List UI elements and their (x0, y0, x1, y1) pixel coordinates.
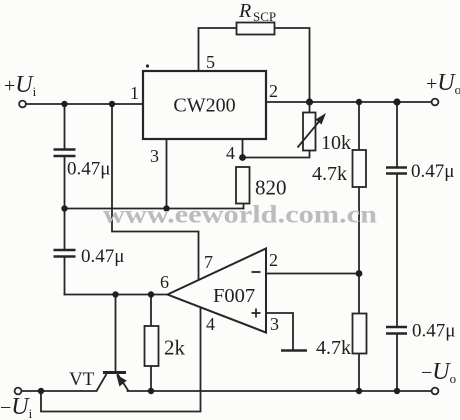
wire: cap C1 top lead (64, 104, 66, 149)
svg-text:4.7k: 4.7k (316, 337, 351, 359)
potentiometer 10k arrow (298, 118, 323, 148)
wire: 4.7k R2 bottom lead (358, 354, 360, 392)
wire: R_SCP left vertical (pin 5) (199, 28, 237, 71)
svg-text:7: 7 (204, 252, 213, 272)
svg-text:−Ui: −Ui (0, 394, 33, 420)
base bar (103, 371, 126, 374)
node: pin6 / 2k (148, 291, 154, 297)
node: output rail / pot (306, 98, 313, 105)
wire: cap C1 bottom lead (64, 157, 66, 209)
wire: pin 6 rail to op-amp apex (65, 294, 168, 296)
wire: mid rail (cap1 bottom / pin3 / 820 bottom) (65, 208, 244, 210)
node: bottom rail / cap (394, 388, 400, 394)
svg-text:4: 4 (206, 314, 215, 334)
transistor emitter arrowhead (116, 375, 127, 387)
svg-text:4: 4 (226, 143, 235, 163)
wire: F007 pin2 to 4.7k junction (266, 273, 359, 275)
wire: bottom output rail to -Uo (128, 390, 432, 392)
node: mid rail / C1-C2 (61, 205, 67, 211)
artifact dot above box corner (146, 64, 149, 67)
wire: CW200 pin 3 down to mid rail (166, 139, 168, 209)
wire: F007 pin3 to ground (266, 313, 293, 350)
svg-text:0.47μ: 0.47μ (67, 159, 110, 180)
svg-text:R: R (238, 0, 251, 22)
wire: 2k bottom lead (150, 366, 152, 391)
svg-text:5: 5 (206, 52, 215, 72)
resistor 820 (236, 167, 250, 204)
svg-text:VT: VT (69, 369, 95, 390)
collector lead (left) (97, 374, 107, 391)
svg-text:F007: F007 (213, 285, 255, 307)
terminal +Ui (19, 101, 26, 108)
wire: pot top lead (309, 102, 311, 113)
node: +Ui / pin7 branch (109, 101, 115, 107)
wire: 4.7k R2 top lead (358, 274, 360, 314)
wire: -Ui bypass down-right-up to F007 pin 4 (41, 307, 201, 412)
op-amp minus sign (252, 271, 261, 273)
op-amp U1 F007 triangle (168, 249, 267, 333)
svg-text:SCP: SCP (253, 9, 276, 24)
resistor 4.7k upper (353, 150, 367, 187)
ground symbol (281, 349, 307, 351)
wire: -Ui terminal to transistor left lead (22, 390, 97, 392)
wire: +Ui rail to CW200 pin 1 (26, 103, 143, 105)
capacitor C1 0.47u plates (54, 150, 76, 157)
svg-text:6: 6 (160, 272, 169, 292)
node: bottom rail / 4.7k (356, 388, 362, 394)
wire: transistor base lead (115, 295, 117, 372)
wire: 2k top lead (150, 295, 152, 327)
svg-text:4.7k: 4.7k (312, 163, 347, 185)
node: mid rail / pin3 (163, 205, 169, 211)
svg-text:CW200: CW200 (173, 95, 235, 117)
svg-text:2: 2 (269, 250, 278, 270)
svg-text:2: 2 (269, 81, 278, 101)
svg-text:2k: 2k (164, 336, 186, 360)
capacitor C2 0.47u plates (54, 250, 76, 257)
node: +Ui / C1 (61, 101, 67, 107)
wire: CW200 pin 4 stub (242, 139, 244, 158)
wire: 4.7k R1 bottom lead (358, 187, 360, 274)
wire: cap C2 bottom lead (64, 257, 66, 295)
node: output rail / 4.7k (356, 99, 362, 105)
svg-text:www.eeworld.com.cn: www.eeworld.com.cn (103, 202, 377, 229)
capacitor C3 0.47u plates (386, 168, 407, 174)
capacitor C4 0.47u plates (386, 327, 407, 334)
svg-text:3: 3 (270, 314, 279, 334)
wire: 4.7k R1 top lead (358, 102, 360, 150)
wire: +Ui branch down to F007 pin 7 (112, 104, 199, 281)
emitter lead (right) (118, 374, 129, 391)
terminal +Uo (432, 99, 439, 106)
node: -Ui / bypass (38, 388, 44, 394)
svg-text:1: 1 (130, 83, 139, 103)
svg-text:+Ui: +Ui (4, 72, 37, 99)
node: bottom rail / 2k (148, 388, 154, 394)
wire: R_SCP right side down to output rail (275, 28, 310, 102)
resistor 4.7k lower (353, 314, 367, 354)
IC CW200 box (143, 71, 266, 139)
terminal -Ui (15, 388, 22, 395)
wire: right cap column middle (396, 174, 398, 327)
op-amp plus sign (252, 309, 261, 318)
node: output rail / cap (393, 98, 400, 105)
transistor VT (97, 373, 129, 392)
wire: CW200 pin2 to +Uo rail (266, 101, 432, 103)
wire: cap C2 top lead (64, 209, 66, 250)
svg-text:10k: 10k (321, 132, 351, 154)
node: pin4 / 820 (239, 154, 246, 161)
node: pin2 / 4.7k (356, 270, 363, 277)
svg-text:3: 3 (150, 146, 159, 166)
svg-text:0.47μ: 0.47μ (411, 161, 454, 182)
wire: right cap column top (396, 102, 398, 167)
wire: pin4 rail to pot bottom (243, 151, 310, 158)
wire: 820 bottom lead (243, 204, 245, 209)
resistor R_SCP (237, 23, 275, 35)
svg-text:0.47μ: 0.47μ (412, 321, 455, 342)
svg-text:820: 820 (255, 176, 287, 200)
terminal -Uo (432, 388, 439, 395)
potentiometer 10k body (303, 113, 316, 151)
node: pin6 / base (112, 291, 118, 297)
svg-text:0.47μ: 0.47μ (81, 246, 124, 267)
resistor 2k (145, 326, 159, 366)
wire: right cap column bottom (396, 334, 398, 391)
